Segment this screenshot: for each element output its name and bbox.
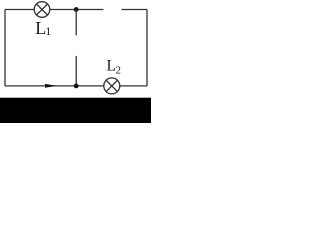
junction node top xyxy=(74,7,79,12)
wire bottom-right segment xyxy=(120,85,147,87)
lamp L2 xyxy=(104,78,120,94)
lamp L1 xyxy=(34,2,50,18)
wire bottom-left segment xyxy=(5,85,104,87)
current arrow xyxy=(45,84,57,88)
wire left side xyxy=(4,10,6,86)
wire top middle segment xyxy=(50,9,104,11)
svg-text:L1: L1 xyxy=(35,18,51,38)
wire middle branch upper xyxy=(75,10,77,36)
junction node bottom xyxy=(74,84,79,89)
wire middle branch lower xyxy=(75,56,77,86)
wire top-right segment after gap xyxy=(122,9,148,11)
svg-text:L2: L2 xyxy=(107,57,121,76)
wire top-left segment xyxy=(5,9,34,11)
black band xyxy=(0,98,151,123)
wire right side xyxy=(146,10,148,86)
